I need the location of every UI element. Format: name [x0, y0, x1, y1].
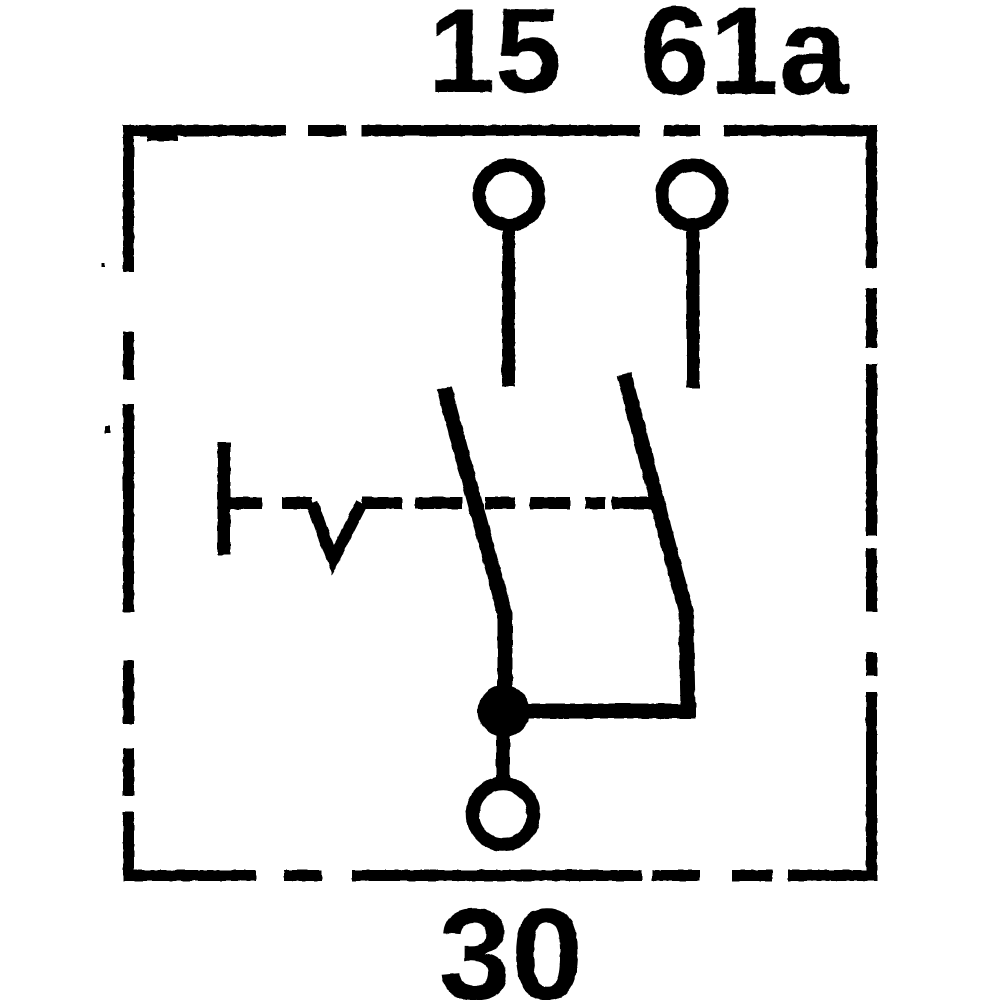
wire: stem to terminal 30: [496, 730, 510, 784]
wire: stem from terminal 61a: [687, 224, 700, 388]
svg-text:61a: 61a: [640, 0, 850, 121]
switch blade contact 15: [444, 388, 505, 711]
enclosure dashed border: right edge: [866, 125, 877, 881]
terminal circle 30: [473, 784, 534, 845]
wire: horizontal common wire to blade 61a: [503, 704, 696, 719]
svg-text:15: 15: [428, 0, 561, 118]
scan artifact below top border at corner: [147, 134, 178, 141]
terminal circle 61a: [662, 165, 722, 225]
speck artifact left border: [102, 263, 105, 267]
enclosure dashed border: bottom edge: [124, 870, 877, 881]
speck artifact left: [105, 426, 110, 433]
actuator detent V notch: [312, 503, 362, 560]
terminal circle 15: [479, 165, 539, 225]
junction node: [478, 685, 530, 737]
wire: stem from terminal 15: [502, 224, 515, 386]
actuator bar: [218, 442, 231, 555]
actuator mechanical dashed link: [230, 497, 655, 509]
enclosure dashed border: top edge: [124, 125, 877, 136]
switch blade contact 61a: [624, 374, 688, 708]
svg-text:30: 30: [439, 881, 584, 1000]
enclosure dashed border: left edge: [123, 125, 134, 881]
